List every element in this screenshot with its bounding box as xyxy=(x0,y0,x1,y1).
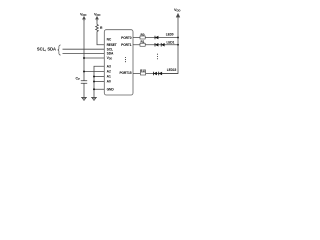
ground (cap) xyxy=(81,97,87,100)
power VDD2 arrow xyxy=(95,16,98,21)
power VDD3 arrow xyxy=(176,13,180,17)
svg-text:LED0: LED0 xyxy=(166,33,174,37)
junction A2/VDD rail xyxy=(83,71,85,73)
wire GND rung xyxy=(94,88,104,90)
LED LED1b xyxy=(161,41,174,47)
brace for SCL SDA xyxy=(58,45,61,55)
LED LED15a xyxy=(154,72,157,76)
svg-text:A3: A3 xyxy=(107,65,111,69)
LED LED0 xyxy=(155,33,174,40)
wire resistor to RESET pin xyxy=(97,32,104,45)
ellipsis between LED rows xyxy=(157,54,158,60)
resistor R0 xyxy=(140,33,145,39)
wire A0 rung xyxy=(94,81,104,83)
svg-text:GND: GND xyxy=(107,88,115,92)
junction A0 xyxy=(93,81,95,83)
wire VDD2 to resistor xyxy=(96,20,98,25)
power VDD2 label xyxy=(94,13,100,18)
wire VDD3 rail to LED15 xyxy=(162,18,178,74)
wire VDD1 rail vertical x=84 xyxy=(83,20,85,81)
wire PORT1 output xyxy=(133,44,178,46)
svg-text:SDA: SDA xyxy=(107,52,114,56)
svg-text:VDD: VDD xyxy=(80,13,86,18)
svg-text:SCL, SDA: SCL, SDA xyxy=(37,47,56,52)
svg-text:PORT1: PORT1 xyxy=(121,43,132,47)
junction GND xyxy=(93,88,95,90)
junction VDD rail/pin xyxy=(83,57,85,59)
LED LED15b xyxy=(159,68,177,75)
svg-text:LED1: LED1 xyxy=(167,41,175,45)
svg-text:A0: A0 xyxy=(107,80,111,84)
svg-text:PORT15: PORT15 xyxy=(119,71,131,75)
resistor R1 xyxy=(140,40,145,46)
power VDD1 arrow xyxy=(82,16,85,21)
node SCL SDA bus label xyxy=(37,47,56,52)
wire PORT15 output xyxy=(133,73,178,75)
LED LED1a xyxy=(155,43,158,47)
wire A1 rung xyxy=(94,76,104,78)
wire SCL xyxy=(63,48,105,50)
wire VDD pin stub xyxy=(84,57,104,59)
wire SDA xyxy=(63,53,105,55)
ground (ladder) xyxy=(91,97,97,100)
svg-text:NC: NC xyxy=(107,38,112,42)
svg-text:PORT0: PORT0 xyxy=(121,36,132,40)
junction A1 xyxy=(93,76,95,78)
IC U1 box xyxy=(104,30,133,95)
resistor R pull-up xyxy=(96,25,103,32)
power VDD3 label xyxy=(174,8,180,13)
svg-text:LED15: LED15 xyxy=(167,68,177,72)
svg-text:A1: A1 xyxy=(107,75,111,79)
resistor R15 xyxy=(140,69,146,75)
svg-text:VDD: VDD xyxy=(94,13,100,18)
svg-text:VDD: VDD xyxy=(174,8,180,13)
power VDD1 label xyxy=(80,13,86,18)
svg-text:CP: CP xyxy=(75,77,80,82)
ellipsis inside IC xyxy=(125,57,126,62)
wire A3 ladder xyxy=(94,66,104,97)
wire PORT0 output xyxy=(133,37,178,39)
svg-text:A2: A2 xyxy=(107,70,111,74)
wire A2 to VDD rail xyxy=(84,71,104,73)
junction LED1 rail xyxy=(177,44,179,46)
junction LED0 rail xyxy=(177,37,179,39)
capacitor CP xyxy=(75,77,87,84)
wire cap to ground xyxy=(83,83,85,97)
